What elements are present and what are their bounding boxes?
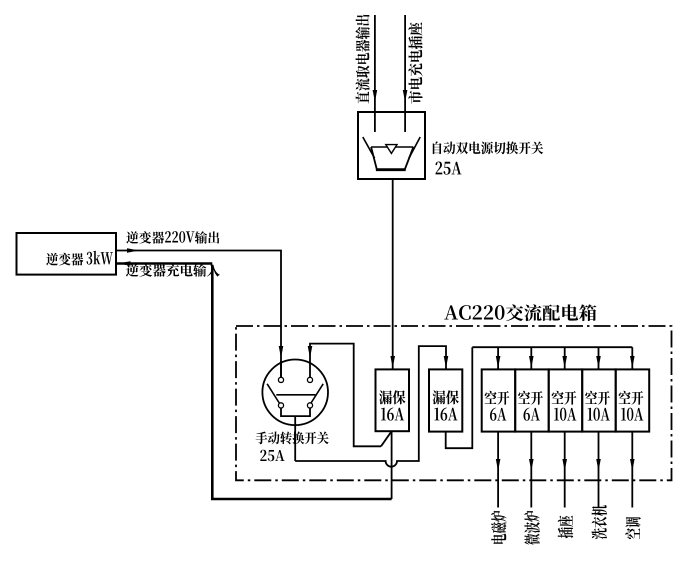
label: QF5 空开: [552, 391, 577, 405]
arrow: load feed direction QF3: [496, 459, 501, 471]
wire: RCD QF1 output diagonal: [381, 431, 392, 446]
switch S2 symbol: right slant: [310, 384, 323, 404]
wire: drop into MCB QF3: [497, 347, 499, 369]
wire: inverter 220V output run: [116, 251, 281, 378]
MCB QF7 box: 空开 10A: [616, 369, 650, 431]
label: QF1 16A: [381, 408, 404, 421]
label: QF4 6A: [523, 408, 539, 421]
arrow: load feed direction QF7: [630, 459, 635, 471]
label: QF5 10A: [554, 408, 576, 421]
wire: run to S2 right input: [310, 344, 381, 447]
arrow: load feed direction QF5: [562, 459, 567, 471]
wire: MCB QF6 output to load: [598, 432, 600, 508]
arrow: into RCD QF2: [444, 356, 449, 368]
switch S1 box: automatic dual-power transfer switch: [358, 112, 425, 179]
RCD QF2 box: 漏保 16A: [429, 369, 462, 431]
label: 市电充电插座 (mains charging socket): [408, 22, 422, 103]
wire: S2 output down: [294, 416, 296, 461]
arrow: into RCD QF1: [390, 356, 395, 368]
switch S2 wire stub: left input inside circle: [280, 361, 282, 377]
switch S1 symbol: trip triangle: [386, 145, 397, 154]
switch S2 terminal: bottom-left: [278, 403, 283, 408]
arrow: flow into ATS right input: [403, 90, 408, 102]
label: 手动转换开关: [256, 431, 329, 444]
wire: drop into MCB QF5: [564, 347, 566, 369]
label: QF6 10A: [588, 408, 610, 421]
RCD QF1 box: 漏保 16A: [376, 369, 410, 431]
switch S2 terminal: top-left: [278, 377, 283, 382]
wire: drop into MCB QF4: [530, 347, 532, 369]
inverter box: 逆变器 3kW: [17, 233, 117, 275]
switch S2 symbol: output bucket: [281, 408, 310, 416]
arrow: flow into ATS left input: [373, 90, 378, 102]
label: load 微波炉: [524, 511, 540, 545]
switch S2 terminal: bottom-right: [307, 403, 312, 408]
label: load 空调: [625, 517, 641, 539]
arrow: load feed direction QF4: [529, 459, 534, 471]
wire: MCB QF5 output to load: [564, 432, 566, 508]
wire: breaker feed bus: [472, 346, 632, 348]
label: load 电磁炉: [491, 511, 507, 544]
switch S1 symbol: right contact slant: [409, 137, 420, 158]
wire: drop into MCB QF6: [598, 347, 600, 369]
wire: DC charger output feed into ATS: [374, 15, 376, 132]
label: QF7 10A: [621, 408, 643, 421]
wire: drop into MCB QF7: [631, 347, 633, 369]
arrow: into MCB QF4: [529, 356, 534, 368]
MCB QF3 box: 空开 6A: [482, 369, 516, 431]
arrow: into inverter charge input: [119, 261, 131, 266]
wire: MCB QF7 output to load: [631, 432, 633, 508]
label: 逆变器 3kW: [46, 251, 113, 266]
wire: S2 output run with hop over QF1 drop: [295, 346, 446, 467]
wire: MCB QF3 output to load: [497, 432, 499, 508]
wire: QF2 output to breaker feed bus: [446, 347, 473, 448]
switch S2 symbol: common bar: [276, 394, 315, 396]
switch S1 symbol: common bar: [371, 146, 413, 148]
wire: inverter charge input run: [116, 262, 212, 265]
wire: MCB QF4 output to load: [530, 432, 532, 508]
wire: charge feed riser and bottom run: [212, 265, 391, 499]
wire: ATS output to RCD QF1: [392, 179, 394, 369]
arrow: load feed direction QF6: [596, 459, 601, 471]
arrow: into S2 right input: [308, 346, 313, 358]
label: QF1 漏保: [379, 390, 405, 404]
arrow: into MCB QF3: [496, 356, 501, 368]
arrow: into MCB QF6: [596, 356, 601, 368]
MCB QF4 box: 空开 6A: [515, 369, 549, 431]
label: load 洗衣机: [592, 505, 608, 539]
switch S2 terminal: top-right: [307, 377, 312, 382]
switch S2 symbol: left slant: [267, 384, 280, 404]
arrow: into manual switch left input: [279, 346, 284, 358]
label: load 插座: [558, 516, 574, 539]
label: AC220交流配电箱: [444, 304, 596, 321]
MCB QF6 box: 空开 10A: [582, 369, 616, 431]
label: 自动双电源切换开关: [433, 141, 543, 154]
label: QF6 空开: [585, 391, 610, 405]
wire: RCD QF1 output down to charge line: [391, 431, 393, 499]
MCB QF5 box: 空开 10A: [549, 369, 583, 431]
label: S2 rating 25A: [260, 450, 284, 461]
label: QF3 空开: [485, 391, 510, 405]
enclosure: AC220 distribution box dashed border: [236, 326, 672, 480]
arrow: inverter output direction: [127, 248, 139, 253]
label: S1 rating 25A: [436, 162, 462, 175]
switch S1 symbol: output bucket: [371, 147, 413, 170]
arrow: into MCB QF5: [562, 356, 567, 368]
label: QF3 6A: [490, 408, 506, 421]
label: QF7 空开: [619, 391, 644, 405]
switch S1 symbol: left contact slant: [363, 137, 375, 158]
label: 逆变器充电输入: [126, 264, 220, 277]
label: QF2 漏保: [433, 390, 459, 404]
label: QF2 16A: [434, 408, 457, 421]
arrow: into MCB QF7: [630, 356, 635, 368]
label: 逆变器220V输出: [126, 231, 219, 244]
label: 直流取电器输出 (DC tap output): [355, 15, 369, 104]
switch S2 circle: manual transfer switch: [262, 360, 328, 426]
label: QF4 空开: [518, 391, 543, 405]
wire: shore power socket feed into ATS: [404, 15, 406, 132]
